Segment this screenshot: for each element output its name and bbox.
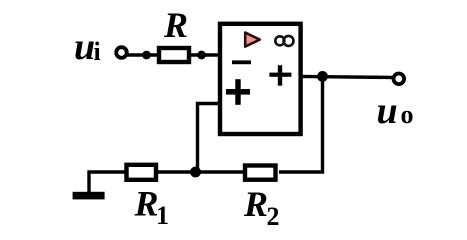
op-amp output plus sign	[269, 65, 291, 85]
wire R1 to feedback junction	[154, 170, 197, 173]
junction node output	[317, 71, 328, 82]
op-amp non-inverting input plus sign	[226, 79, 250, 105]
op-amp inverting input minus sign	[232, 60, 251, 64]
junction node feedback tap	[190, 167, 201, 178]
wire op-amp output	[301, 76, 393, 77]
op-amp amplifier triangle symbol	[245, 33, 260, 47]
svg-text:2: 2	[267, 202, 280, 231]
ground symbol	[73, 192, 105, 200]
resistor R1	[127, 165, 157, 180]
wire resistor R to op-amp inverting input	[190, 53, 218, 56]
svg-text:1: 1	[156, 201, 169, 230]
svg-text:R: R	[163, 5, 188, 45]
wire feedback vertical from output junction	[279, 76, 323, 172]
svg-text:u: u	[74, 26, 95, 68]
junction dot right of R	[197, 51, 206, 60]
wire ground vertical stub	[87, 171, 90, 194]
node uo output terminal	[394, 74, 405, 85]
wire input terminal to resistor R	[128, 53, 159, 56]
op-amp U1 body	[220, 24, 301, 134]
svg-text:o: o	[401, 100, 414, 129]
wire op-amp non-inverting input stub	[198, 104, 219, 173]
resistor R2	[245, 166, 276, 180]
svg-text:R: R	[134, 184, 159, 224]
svg-text:u: u	[377, 90, 398, 132]
resistor R	[159, 48, 189, 62]
junction dot left of R	[142, 51, 151, 60]
svg-text:i: i	[94, 37, 101, 66]
node ui input terminal	[116, 47, 127, 58]
wire R1 to ground stub	[88, 170, 128, 173]
svg-text:R: R	[243, 184, 268, 224]
wire R2 to bottom junction	[190, 170, 246, 173]
op-amp infinity gain symbol	[275, 36, 293, 46]
